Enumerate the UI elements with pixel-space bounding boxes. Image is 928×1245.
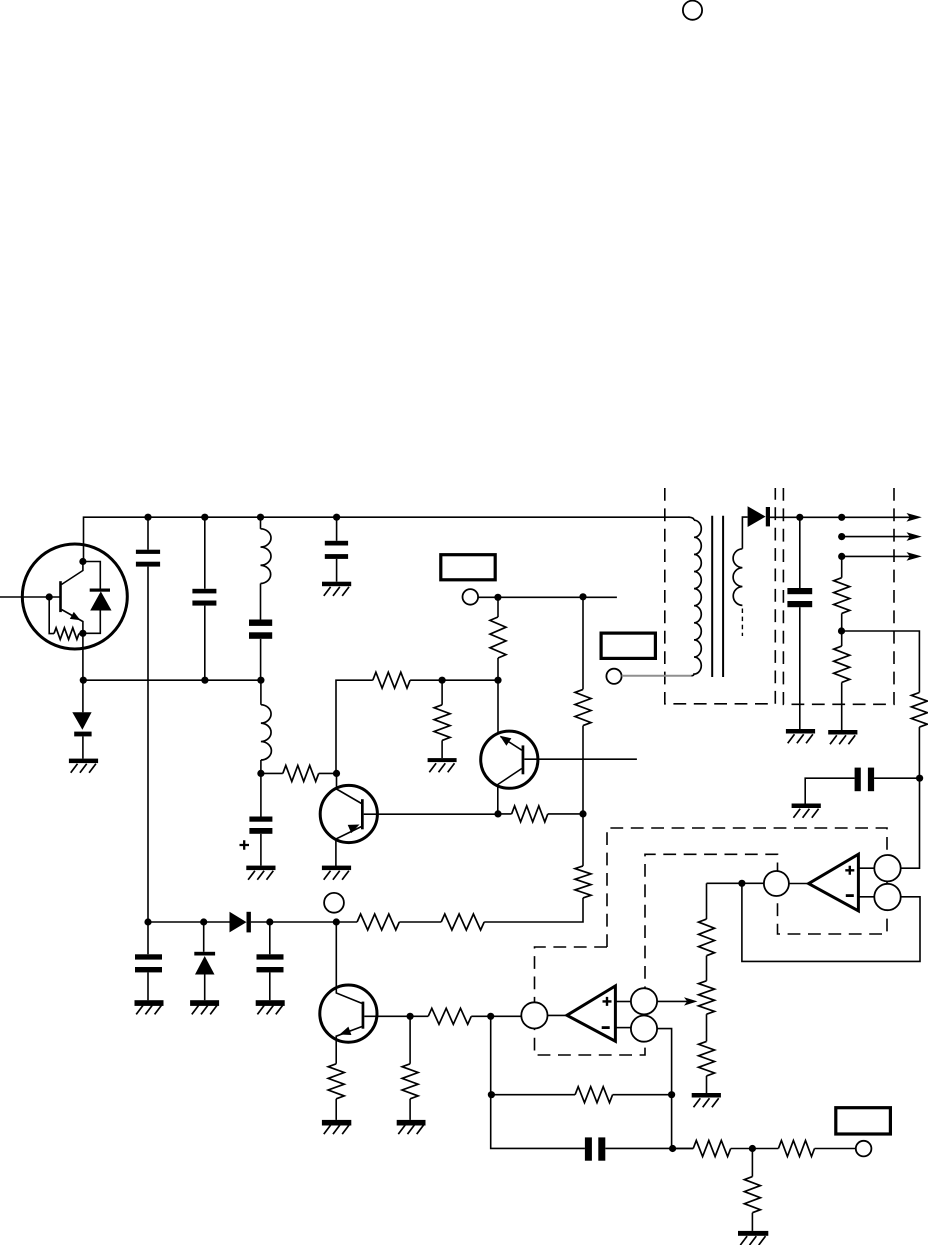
node dot: emitter rail junction [80,677,87,684]
wire: R4 to Q1 collector node [319,772,337,774]
wire: from L2 tap corner up and right to R2 [336,680,373,773]
resistor R6 [575,689,591,725]
wire: secondary top lead to D5 [742,517,747,549]
transformer T1 shield dashed box (primary side) [665,488,776,704]
wire: C9 to ground [799,607,801,729]
wire: divider top lead [841,556,843,577]
wire: R13 left lead [491,1094,575,1096]
op-amp U2 input terminal circle [521,1002,547,1028]
wire: D4 top lead [203,922,205,952]
node dot: R3 top node [439,677,446,684]
ground symbol (below C9) [786,729,815,743]
node dot: C1 column / VR rail [144,918,151,925]
wire: R22 to ground [751,1213,753,1231]
ground symbol (below Q1 emitter) [322,866,351,880]
node dot: top rail / C2 [201,514,208,521]
ground symbol (below C6) [135,1000,164,1014]
wire: Q3 collector lead [336,922,362,1003]
label box (empty) for drive terminal P2 [601,633,655,658]
wire: U1 output circle to apex [789,883,809,885]
wire: C9 top lead [799,517,801,588]
node dot: C10 / R15 row [669,1145,676,1152]
capacitor C6 [135,954,162,972]
ground symbol (C8 left) [792,804,821,818]
node dot: top rail / C1 [144,514,151,521]
label box (empty) for terminal P3 [836,1108,891,1134]
resistor R13 [575,1087,613,1103]
wire: U1 output row [707,882,764,884]
resistor R18 [911,693,927,728]
node dot: L2 / C5 / R4 node [257,770,264,777]
wire: C3 to bottom rail [260,639,262,680]
inductor L2 [261,705,272,760]
diode D2 cathode bar [74,732,91,737]
wire: VR rail left segment [148,921,230,923]
wire: R20 to ground [841,682,843,730]
wire: Q2 upper lead from R node [497,680,499,733]
node dot: bottom rail / C2 [201,677,208,684]
capacitor C10 (horizontal, feedback) [585,1137,605,1160]
wire: Q4 collector diagonal (inside U3) [62,562,83,585]
node dot: divider / output 2 [838,533,845,540]
wire: C5 to ground [260,834,262,866]
node dot: R1 top node [494,594,501,601]
wire: U1 - input lead [858,896,874,898]
wire: Q4 emitter diagonal (inside U3) [62,610,83,634]
wire: C8 left lead to ground [805,778,854,803]
resistor R11 (Q3 emitter) [328,1064,344,1099]
arrow: wiper arrowhead pointing at VR1 [684,997,698,1005]
ground symbol (below R12) [397,1120,426,1134]
resistor R22 [744,1177,760,1213]
wire: C8 right lead [874,777,919,779]
open terminal circle P1 [463,589,479,605]
arrow: Q3 emitter arrowhead [340,1027,352,1035]
node dot: top rail / C4 [333,514,340,521]
wire: U2 wiper drive to VR1 [657,1000,687,1002]
resistor R4 [283,765,319,781]
wire: R3 bottom lead [441,740,443,758]
node dot: feedback / R13 row [488,1091,495,1098]
node dot: U3 base [46,593,53,600]
potentiometer VR1 element [699,981,715,1014]
plus mark: U1 non-inverting input [845,866,854,875]
wire: Q2 upper diagonal [501,737,522,751]
diode D5 triangle [748,506,766,527]
minus mark: U1 inverting input [846,894,854,897]
resistor R16 (upper part of VR1 chain) [699,919,715,956]
resistor R2 [373,672,410,688]
arrow: output 2 arrowhead [907,532,922,541]
ground symbol (below C4) [322,582,351,596]
wire: U3 base lead from left edge [0,596,60,598]
wire: L1 top lead [260,517,262,529]
resistor R5 (Q2 lower to divider) [512,806,548,822]
wire: C2 column [204,517,206,680]
arrow: output 3 arrowhead [907,552,922,561]
wire: output 3 line [842,555,910,557]
wire: secondary continuation (dashed stub) [741,609,743,637]
arrow: Q1 emitter arrowhead [348,825,360,834]
wire: R11 to ground [335,1099,337,1120]
wire: R18 top lead from divider tap [842,631,920,693]
op-amp U1 lower input circle [874,884,900,910]
node dot: R1/R2/R3 node [494,677,501,684]
wire: U3 emitter down to bottom rail [82,633,84,712]
transistor Q1 base bar [361,799,364,829]
wire: R18 bottom lead [918,727,920,778]
wire: U1 + input lead [858,867,874,869]
wire: R3 top lead [441,680,443,705]
resistor R14 base-emitter (inside U3) [49,597,54,634]
capacitor C1 [136,550,160,567]
capacitor C9 [787,588,812,607]
wire: R17 to ground [706,1076,708,1093]
wire: C4 top lead [336,517,338,541]
wire: R7 top lead [582,814,584,866]
transformer T1 core lines [712,516,723,677]
node dot: Q2 lower node [494,810,501,817]
op-amp U1 triangle [809,854,859,911]
transistor Q2 circle [481,731,538,788]
diode D4 triangle [195,956,215,975]
wire: C1/C6 column [147,517,149,1000]
node dot: bottom rail / L2 [257,677,264,684]
wire: Q2 base line (stub to right) [524,758,637,760]
wire: VR rail middle segment [251,921,357,923]
wire: Q1 collector lead [337,773,362,803]
wire: U2 + output lead [615,1001,631,1003]
op-amp U2 upper output circle [631,988,657,1014]
node dot: R5 / R6 column node [579,810,586,817]
ground symbol (below D4) [190,1000,219,1014]
wire: D2 to ground [82,736,84,758]
node dot: Q1 collector node [333,770,340,777]
op-amp U2 triangle [567,986,616,1041]
resistor R3 [434,705,450,741]
wire: L2 bottom lead [260,760,262,773]
op-amp U1 output terminal circle [764,871,789,896]
capacitor C8 (horizontal) [855,768,875,792]
ground symbol (below R22) [738,1231,768,1245]
wire: R19 to tap [841,613,843,646]
capacitor C3 [249,620,272,639]
capacitor C7 [257,954,284,972]
node dot: top rail / L1 [257,514,264,521]
wire: U2 lower circle to feedback column [657,1029,672,1149]
node dot: divider / output 3 [838,553,845,560]
wire: bottom rail (U3 emitter net) [83,679,261,681]
diode D3 triangle [230,912,247,933]
arrow: output 1 arrowhead [907,513,922,522]
wire: damper diode D1 branch (inside U3) [83,562,100,634]
node dot: output / C9 [796,514,803,521]
ground symbol (below D2) [69,759,98,773]
node dot: R13 / U2 column [668,1091,675,1098]
op-amp U2 lower output circle [631,1016,657,1042]
wire: R2 to R3 node [410,679,498,681]
ground symbol (below C7) [256,1000,285,1014]
wire: Q1 emitter lead [336,827,362,867]
wire: R12 top lead [409,1016,411,1064]
node dot: C8 / R18 column [916,775,923,782]
wire: C5 top lead [260,773,262,816]
resistor R8 [357,914,399,930]
wire: L2 top lead [260,680,262,705]
wire: R7 bottom corner to VR rail [484,898,583,922]
node dot: U1 output / feedback [738,880,745,887]
ground symbol (below C5) [246,866,275,880]
node dot: Q3 base / R10 [407,1013,414,1020]
wire: Q2 lower diagonal and lead [498,769,522,814]
resistor R12 [402,1064,418,1099]
inductor L1 [261,529,272,584]
wire: R13 right lead [613,1094,672,1096]
wire: C4 to ground [336,559,338,582]
node dot: U3 emitter junction [79,630,86,637]
resistor R15 [693,1141,731,1157]
wire: R22 top lead [751,1149,753,1177]
diode D1 cathode bar (inside U3) [90,589,110,592]
wire: R21 to terminal P3 [815,1148,856,1150]
wire: U1 + input from C8 node [901,778,920,868]
wire: R8 to R9 [399,921,441,923]
transistor Q3 circle [320,985,377,1042]
node dot: output / divider [838,514,845,521]
transformer T1 secondary winding [733,549,742,606]
arrow: Q4 emitter arrowhead (inside U3) [70,612,81,620]
open terminal circle (above Q3 collector) [324,893,344,913]
transistor Q4 base bar (inside U3) [59,581,62,612]
node dot: VR rail / D4 [200,918,207,925]
transistor Q3 base bar [362,1002,365,1029]
wire: node to R4 [261,772,283,774]
ground symbol (below R17) [692,1093,721,1107]
polarity + mark of C5 [240,840,250,850]
open terminal circle P3 [856,1141,872,1157]
resistor R1 [490,617,506,658]
wire: VR1 to R17 [706,1014,708,1041]
open terminal circle P2 [606,669,621,684]
resistor R9 [441,914,484,930]
wire: R1 bottom lead [497,658,499,680]
wire: VR1 top lead from U1 output row [706,883,708,919]
diode D2 triangle (emitter to ground) [72,712,91,729]
wire: R1 top lead [497,597,499,617]
resistor R7 [575,866,591,898]
plus mark: U2 non-inverting input [603,997,612,1006]
wire: C10 right lead [605,1147,693,1149]
node dot: feedback column top [487,1013,494,1020]
wire: stub from R1 node to the right [498,596,617,598]
wire: Q3 emitter lead [336,1027,362,1064]
wire: C7 to ground [269,972,271,1000]
wire: U2 input from feedback node [491,1015,522,1017]
wire: bottom row from C10 node to R15 [673,1148,694,1150]
wire: P1 to R1 top node [478,596,498,598]
diode D3 cathode bar [247,912,251,933]
wire: C7 top lead [269,922,271,954]
wire: +B top rail from hybrid module collector to transformer primary [84,517,691,561]
ground symbol (below R20) [828,730,857,744]
hybrid IC U3 outline circle (power darlington module) [22,544,127,649]
capacitor C5 (electrolytic) [249,817,272,834]
wire: Q3 base line (right segment) [471,1015,490,1017]
op-amp U1 upper input circle [874,855,900,881]
label box (empty) for terminal P1 [441,555,495,580]
node dot: R21/R22 node [749,1145,756,1152]
resistor R21 [778,1141,814,1157]
arrow: Q2 upper-lead arrowhead [500,736,512,746]
resistor R20 [834,646,850,682]
transistor Q1 circle [320,785,377,842]
node dot: R6 top node [579,593,586,600]
wire: L1 to C3 [260,584,262,620]
resistor R10 (in Q3 base line) [428,1008,471,1024]
wire: gray return line from P2 to primary bottom [622,675,692,677]
wire: R12 to ground [409,1099,411,1120]
node dot: VR rail / Q3 collector [333,918,340,925]
wire: R15 to R21 node [731,1148,779,1150]
wire: D4 to ground [204,975,206,1001]
wire: R6 top lead [582,597,584,689]
control section dashed enclosure (around op-amps U1 and U2) [535,828,888,1055]
wire: R5 leads [498,813,583,815]
wire: Q3 base line (left segment) [364,1015,428,1017]
wire: D5 to output arrow [770,516,910,518]
wire: output 2 line [842,536,910,538]
wire: R16 to VR1 [706,956,708,981]
node dot: U3 collector junction [79,558,86,565]
node dot: VR rail / C7 [266,918,273,925]
minus mark: U2 inverting input [602,1026,610,1029]
wire: U2 - output lead [615,1027,631,1029]
wire: U1 - input feedback loop [742,883,920,961]
open terminal circle (top of page) [683,1,702,20]
capacitor C2 [192,589,216,606]
transistor Q2 base bar [522,745,525,774]
diode D1 triangle (inside U3) [90,591,111,610]
diode D4 cathode bar [194,952,215,956]
wire: R6 bottom lead [582,726,584,814]
ground symbol (below R11) [322,1120,351,1134]
capacitor C4 [325,541,348,559]
resistor R17 (lower part of VR1 chain) [699,1041,715,1076]
wire: Q1 base line to Q2 emitter node [364,813,498,815]
wire: feedback column down [491,1016,585,1148]
diode D5 cathode bar [766,507,770,526]
ground symbol (below R3) [428,758,457,772]
wire: U2 input circle to apex [548,1014,567,1016]
transformer T1 shield dashed box (secondary side) [783,488,894,704]
wire: primary winding entry bend [688,517,694,520]
node dot: divider tap [838,627,845,634]
resistor R19 [834,578,850,614]
transformer T1 primary winding [691,520,702,676]
